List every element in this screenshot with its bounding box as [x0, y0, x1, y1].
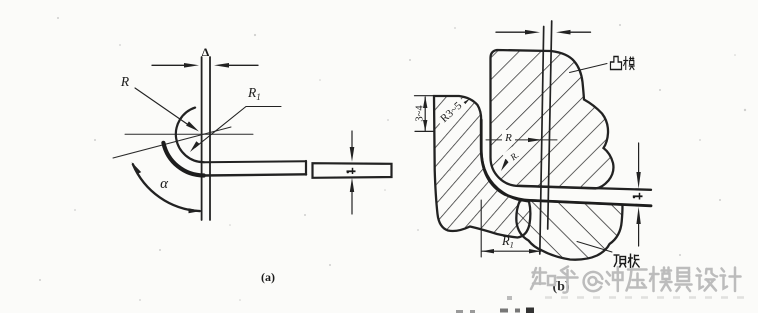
- horizontal centerline: [125, 133, 253, 135]
- ji: [721, 268, 741, 292]
- 3~4 dimension: [424, 97, 426, 131]
- bottom edge cut-off text remnants: [456, 296, 534, 313]
- clearance dimension line left: [152, 64, 190, 66]
- center cross line: [486, 139, 557, 141]
- CJK glyph: tu (convex) of tu-mo punch label: [610, 57, 621, 70]
- blade gap line right: [548, 21, 552, 229]
- t dimension right: upper: [638, 143, 640, 172]
- svg-text:(a): (a): [261, 270, 275, 284]
- sheet segment 2: [313, 163, 392, 178]
- bend outer radius arc (sheet outer surface): [163, 143, 203, 176]
- angle alpha arc: [133, 164, 200, 211]
- sheet top line (punch bottom extended): [519, 186, 651, 190]
- svg-text:R: R: [120, 74, 130, 89]
- ju: [676, 268, 692, 291]
- label t rotated: [347, 168, 356, 174]
- sheet bottom edge: [204, 174, 306, 175]
- svg-text:3~4: 3~4: [415, 105, 426, 122]
- hu: [558, 267, 578, 293]
- halo for R label (b): [502, 130, 515, 142]
- svg-text:α: α: [160, 176, 169, 192]
- svg-text:Δ: Δ: [202, 45, 210, 59]
- leader ding-ban label: [577, 242, 612, 253]
- faint artifact row: [545, 296, 748, 299]
- leader line R1: [195, 107, 281, 148]
- sheet top edge: [204, 160, 306, 163]
- ejector plate (ding ban): [516, 200, 622, 260]
- she: [697, 269, 718, 291]
- leader line R: [135, 88, 190, 126]
- top clearance dimension: [496, 31, 528, 33]
- label t right rotated: [633, 193, 643, 200]
- CJK glyph: ban (plate) of ding-ban label: [628, 254, 640, 269]
- at sign: [584, 272, 603, 291]
- R3~5 arrow: [460, 99, 471, 108]
- t dimension right: lower: [638, 224, 640, 246]
- punch body U1: [491, 50, 614, 189]
- t dimension line upper: [351, 131, 353, 147]
- clearance dimension line right: [224, 64, 258, 66]
- svg-text:R: R: [504, 132, 512, 144]
- mo2: [650, 267, 672, 291]
- watermark zhihu at-chongya-moju-sheji: [531, 267, 741, 293]
- leader tu-mo label: [570, 64, 608, 73]
- CJK glyph: mo (model) of tu-mo punch label: [623, 56, 634, 70]
- leader to punch radius: [506, 146, 513, 162]
- zhi: [531, 268, 555, 289]
- punch blade line left: [201, 57, 203, 220]
- bend inner radius arc: [176, 108, 204, 163]
- punch blade line right: [209, 57, 211, 220]
- ya: [627, 270, 647, 291]
- angle reference line: [113, 127, 231, 158]
- blade gap line left: [540, 27, 544, 255]
- R1 dimension line: [482, 250, 541, 252]
- sheet bottom boundary: [481, 120, 651, 206]
- t dimension line lower: [351, 192, 353, 214]
- chong: [606, 267, 623, 291]
- die left wall: [434, 96, 530, 238]
- CJK glyph: ding (top) of ding-ban label: [614, 255, 627, 268]
- sheet end cap: [305, 161, 307, 175]
- R1 dimension bottom: extension line: [480, 200, 482, 257]
